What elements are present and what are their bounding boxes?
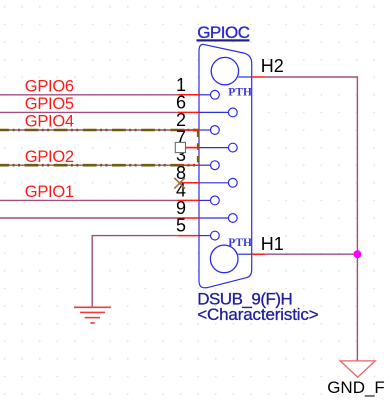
svg-text:<Characteristic>: <Characteristic> [197,305,319,324]
svg-text:GPIO5: GPIO5 [25,95,74,113]
wire GPIO2 dashed overlay [0,164,200,167]
pin 4 stub [178,199,199,201]
wire GPIO2 (pin 3 row, thin base) [0,164,199,166]
ground symbol [74,307,111,323]
wire GPIO4 (pin 2 row, thin base) [0,129,199,131]
svg-text:GPIO1: GPIO1 [25,183,74,201]
pin 7 stub over square [186,147,199,149]
svg-text:GPIOC: GPIOC [197,23,250,42]
power flag GND triangle [340,361,375,377]
pin inner lines (blue) [199,77,252,254]
no-connect square on pin 7 [175,142,185,152]
pin 5 stub [178,235,199,237]
svg-text:GND_F: GND_F [327,378,385,397]
mounting hole PTH top [211,57,238,84]
dash end blob row2 [193,129,200,132]
mounting hole PTH bottom [210,245,238,273]
svg-text:H2: H2 [261,56,284,76]
svg-text:GPIO6: GPIO6 [25,77,74,95]
wire GPIO1 (pin 4 row) [0,199,178,201]
pin circles [211,90,238,240]
pin 6 stub [178,111,199,113]
pin 7 stub [186,147,199,149]
svg-text:PTH: PTH [228,87,252,99]
svg-text:5: 5 [176,216,186,236]
pin 9 stub [178,217,199,219]
svg-text:GPIO4: GPIO4 [25,113,74,131]
wire GPIO5 (pin 6 row) [0,111,178,113]
svg-text:GPIO2: GPIO2 [25,148,74,166]
wire GPIO6 (pin 1 row) [0,94,178,96]
no-ERC cross on pin 8 [174,178,185,189]
wire pin 9 row [0,217,178,219]
wire H2 net [265,77,357,254]
pin H2 stub [252,76,266,78]
connector GPIOC body (DSUB_9(F)H) [199,44,252,287]
dashed vertical link pin2-pin3 [197,129,200,165]
pin 2 stub [178,129,199,131]
pin H1 stub [252,253,266,255]
wire H1 net [265,253,357,255]
wire to GND flag [356,254,358,361]
wire pin 5 row to ground [92,236,178,307]
pin 3 stub [178,164,199,166]
svg-text:H1: H1 [261,234,284,254]
junction dot [353,250,361,258]
pin 8 stub [180,182,199,184]
designator underline [197,39,250,41]
svg-text:PTH: PTH [228,237,252,249]
wire GPIO4 dashed overlay [0,129,200,132]
pin 1 stub [178,94,199,96]
